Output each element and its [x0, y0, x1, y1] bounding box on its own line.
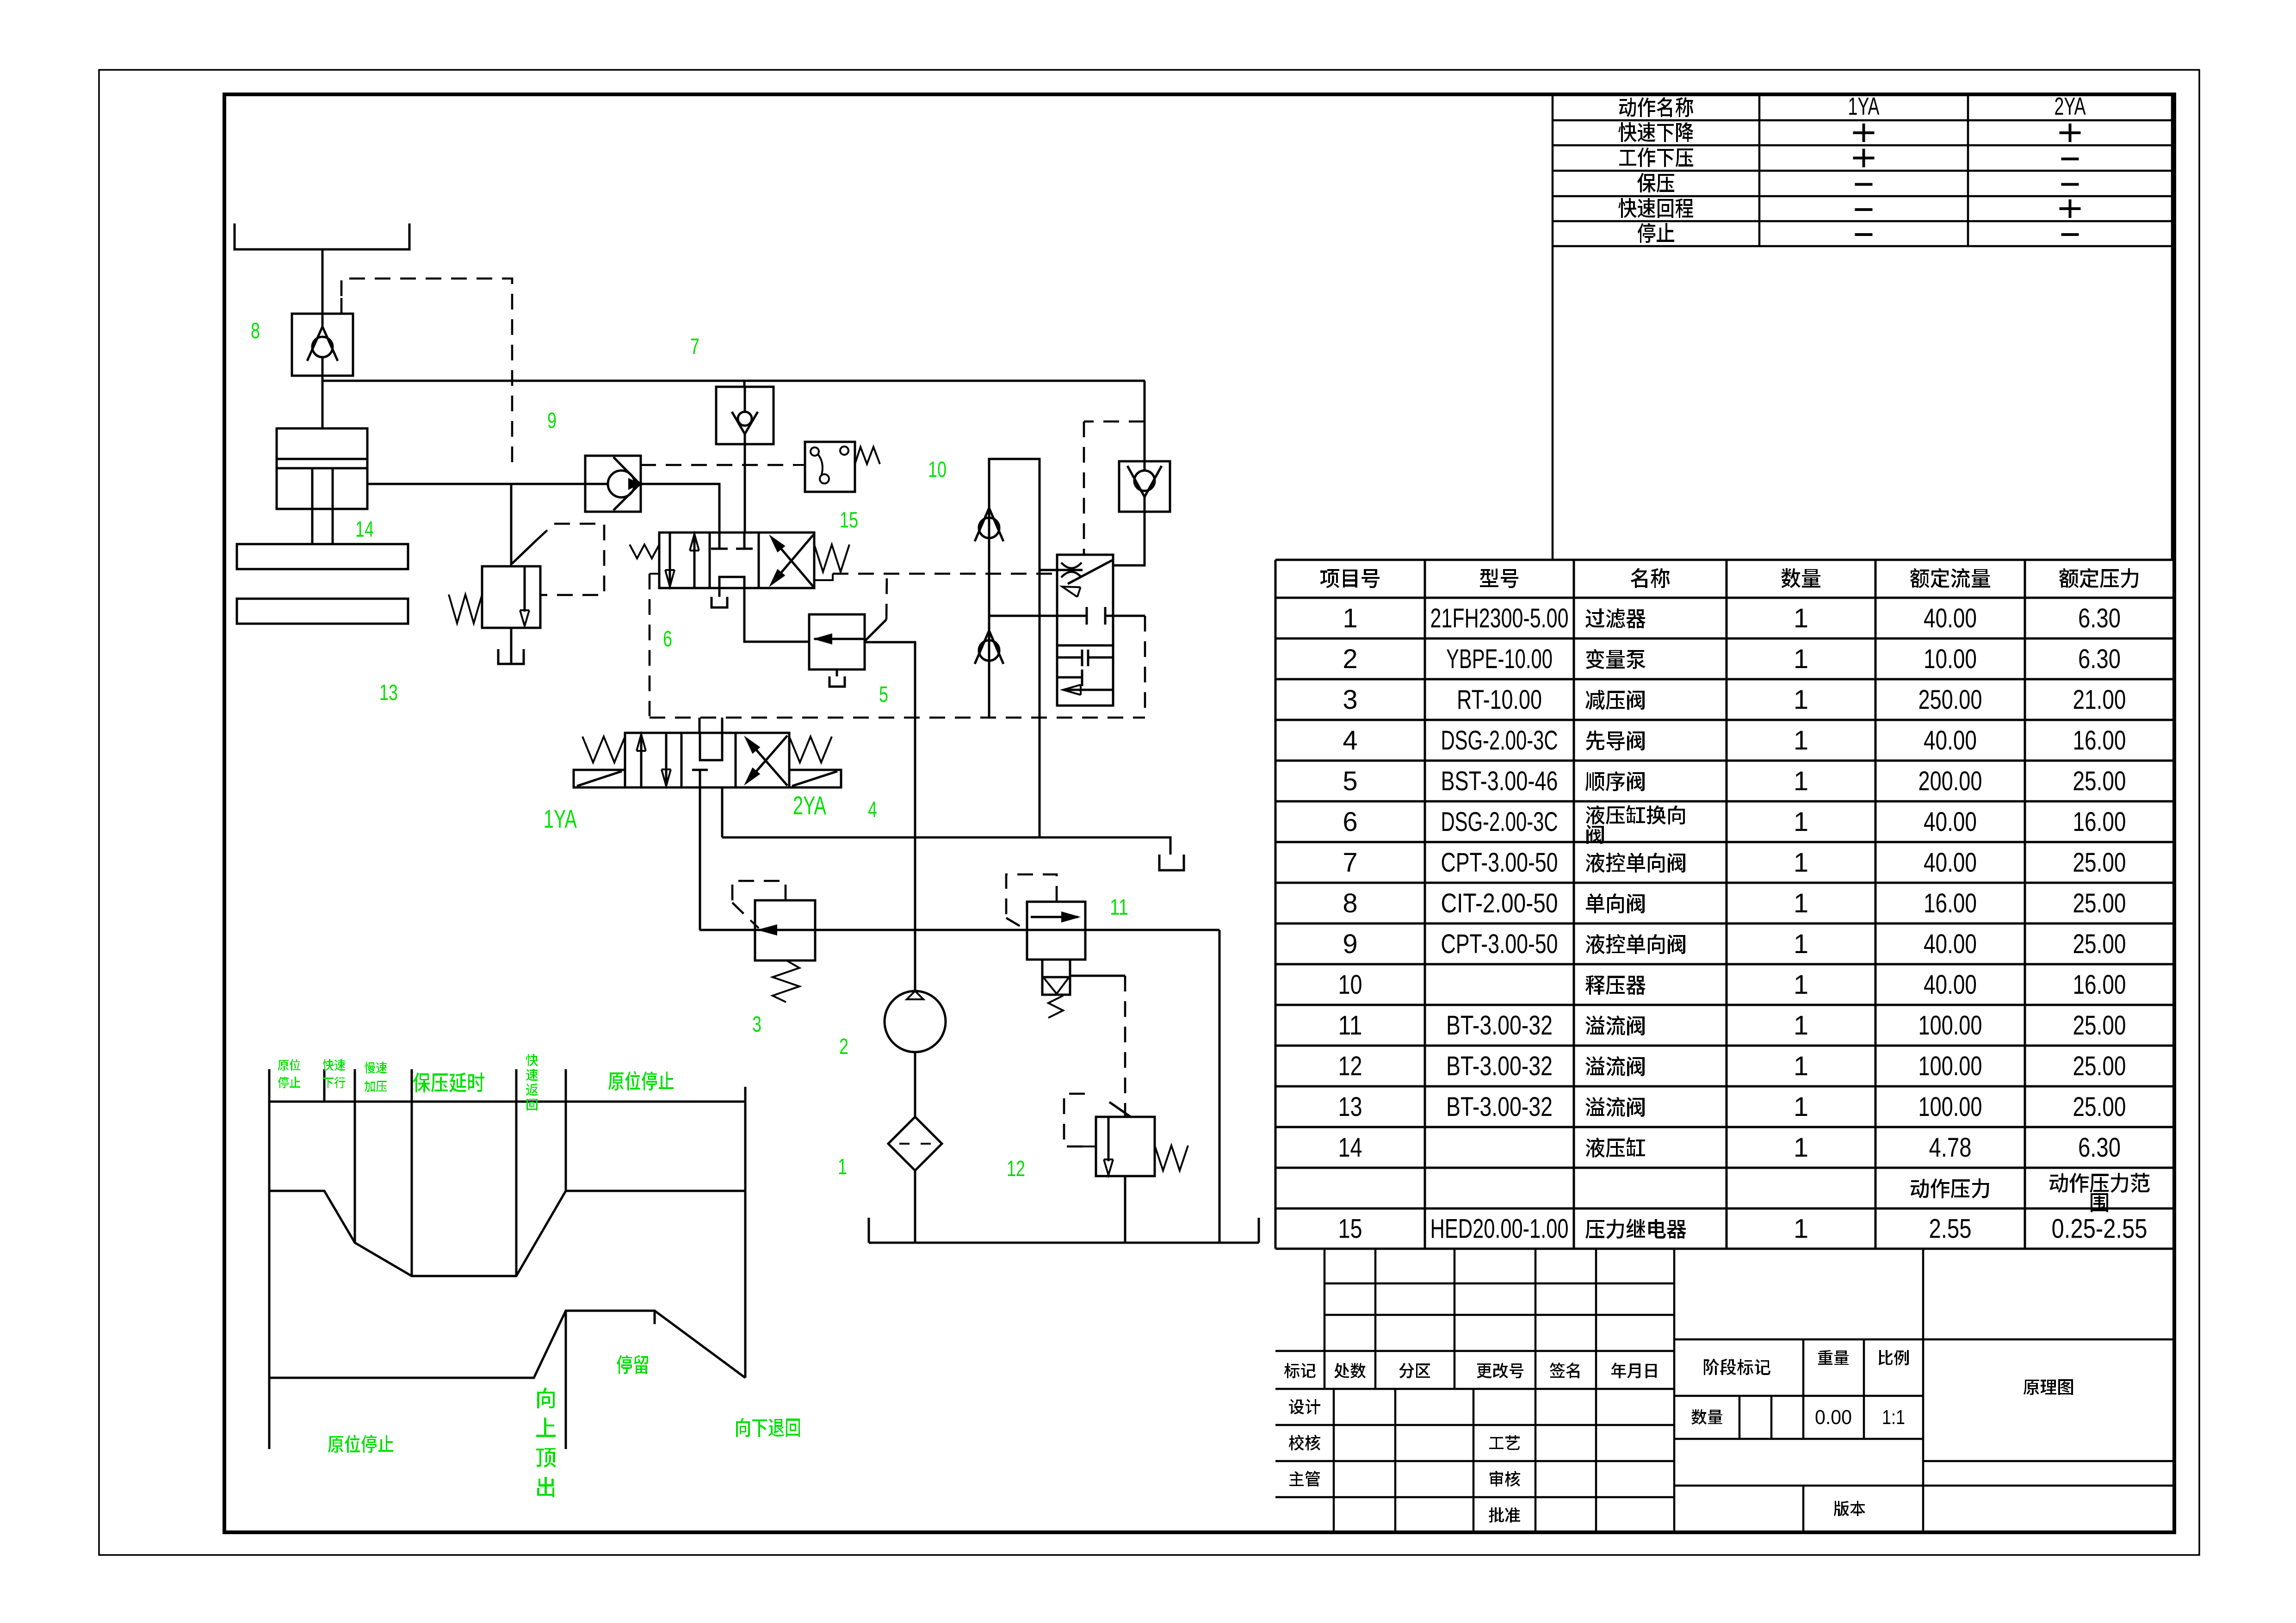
action table row 工作下压: [1619, 148, 1693, 167]
valve 12 outlet to tank: [1124, 1176, 1126, 1243]
svg-text:13: 13: [1338, 1092, 1362, 1122]
release device check line: [989, 459, 1040, 837]
svg-text:RT-10.00: RT-10.00: [1457, 685, 1542, 715]
wire check to release device right port: [1113, 512, 1145, 565]
hydraulic cylinder 14: [277, 428, 367, 509]
reducing valve drain to tank: [510, 628, 513, 664]
svg-text:1: 1: [1343, 603, 1357, 633]
svg-text:25.00: 25.00: [2073, 766, 2126, 796]
svg-text:1YA: 1YA: [544, 804, 577, 833]
sequence valve 5 drain tank: [836, 669, 838, 676]
svg-text:9: 9: [547, 409, 557, 433]
cycle diagram lower curve: [269, 1311, 745, 1378]
svg-text:250.00: 250.00: [1918, 685, 1982, 715]
svg-text:5: 5: [879, 682, 888, 707]
pilot line check 9 to pressure switch 15: [640, 464, 794, 466]
svg-text:2: 2: [1343, 644, 1357, 674]
svg-text:1: 1: [1794, 970, 1808, 1000]
svg-text:4: 4: [1343, 725, 1357, 756]
svg-text:2.55: 2.55: [1929, 1214, 1972, 1244]
pilot valve 4 body: [625, 733, 789, 787]
svg-text:16.00: 16.00: [2073, 970, 2126, 1000]
svg-text:7: 7: [1343, 848, 1357, 878]
valve 12 pilot dashes: [1083, 1146, 1096, 1147]
svg-text:25.00: 25.00: [2073, 1010, 2126, 1041]
cycle diagram top line: [269, 1101, 745, 1103]
svg-text:10.00: 10.00: [1924, 644, 1977, 674]
svg-text:16.00: 16.00: [2073, 807, 2126, 837]
svg-text:40.00: 40.00: [1924, 725, 1977, 756]
svg-text:3: 3: [752, 1012, 761, 1037]
svg-text:40.00: 40.00: [1924, 807, 1977, 837]
sequence valve 5: [809, 614, 865, 669]
release device lower pistons: [1057, 657, 1082, 659]
svg-text:1: 1: [1794, 888, 1808, 918]
title block bottom row vertical: [1802, 1486, 1805, 1532]
title block outline: [1324, 1282, 1674, 1285]
wire valve 5 outlet to pump line: [865, 642, 915, 991]
svg-text:14: 14: [355, 517, 374, 542]
check valve upper of release set: [979, 518, 999, 538]
action table row 停止: [1638, 223, 1674, 243]
svg-text:1: 1: [838, 1155, 847, 1179]
svg-text:16.00: 16.00: [1924, 888, 1977, 918]
svg-text:CPT-3.00-50: CPT-3.00-50: [1441, 929, 1558, 959]
svg-text:8: 8: [251, 319, 260, 343]
svg-text:21.00: 21.00: [2073, 685, 2126, 715]
check valve 7: [743, 381, 746, 387]
action table grid: [1553, 119, 2172, 122]
check valve 8: [292, 314, 353, 376]
valve 4 P port to pressure line: [699, 787, 701, 930]
svg-text:5: 5: [1343, 766, 1357, 796]
svg-text:0.00: 0.00: [1815, 1406, 1852, 1429]
svg-text:100.00: 100.00: [1918, 1051, 1982, 1081]
wire main upper line: [322, 380, 1145, 382]
svg-text:1: 1: [1794, 725, 1808, 756]
wire tank to check valve 8: [322, 249, 324, 314]
title block stage row verticals: [1802, 1339, 1805, 1396]
svg-text:CPT-3.00-50: CPT-3.00-50: [1441, 848, 1558, 878]
svg-text:200.00: 200.00: [1918, 766, 1982, 796]
parts list table grid: [1275, 559, 2174, 561]
valve 11 pilot dashes: [1006, 874, 1057, 918]
svg-text:1:1: 1:1: [1882, 1406, 1905, 1429]
svg-text:21FH2300-5.00: 21FH2300-5.00: [1430, 603, 1569, 633]
solenoid 1YA: [574, 770, 625, 787]
svg-text:13: 13: [379, 681, 398, 705]
svg-text:CIT-2.00-50: CIT-2.00-50: [1441, 888, 1558, 918]
svg-text:40.00: 40.00: [1924, 929, 1977, 959]
cycle diagram ticks: [268, 1069, 271, 1449]
svg-text:6.30: 6.30: [2078, 644, 2121, 674]
svg-text:6.30: 6.30: [2078, 603, 2121, 633]
relief valve 12: [1096, 1117, 1155, 1176]
svg-text:1: 1: [1794, 1010, 1808, 1041]
check valve top right: [1144, 381, 1146, 461]
wire check valve 8 to cylinder: [322, 376, 324, 428]
action table row 快速回程: [1618, 198, 1693, 218]
svg-text:4: 4: [868, 798, 877, 822]
svg-text:40.00: 40.00: [1924, 970, 1977, 1000]
cycle labels: [278, 1059, 300, 1071]
svg-text:6.30: 6.30: [2078, 1133, 2121, 1163]
svg-text:2YA: 2YA: [793, 791, 826, 820]
wire check 7 to valve 6: [744, 444, 746, 533]
svg-text:40.00: 40.00: [1924, 848, 1977, 878]
tank top: [235, 223, 409, 249]
wire pump to filter: [914, 1052, 916, 1117]
directional valve 6: [659, 533, 814, 588]
title block right horizontals: [1674, 1338, 2174, 1341]
pilot line from check valve 8: [340, 296, 343, 314]
svg-text:25.00: 25.00: [2073, 1092, 2126, 1122]
svg-text:BT-3.00-32: BT-3.00-32: [1446, 1092, 1553, 1122]
valve 3 pilot dashes: [732, 881, 786, 903]
svg-text:25.00: 25.00: [2073, 929, 2126, 959]
svg-text:BT-3.00-32: BT-3.00-32: [1446, 1010, 1553, 1041]
parts table row 15: [1911, 1178, 1989, 1198]
pressure switch 15: [805, 442, 855, 492]
pressure release device 10: [1057, 555, 1113, 706]
release device pilot to long dash line: [1113, 615, 1145, 617]
svg-text:25.00: 25.00: [2073, 888, 2126, 918]
svg-text:3: 3: [1343, 685, 1357, 715]
svg-text:1: 1: [1794, 1051, 1808, 1081]
press platen lower 13: [237, 599, 408, 624]
title block left grid verticals upper: [1324, 1249, 1326, 1389]
valve 6 springs: [630, 545, 659, 558]
svg-text:12: 12: [1007, 1157, 1025, 1181]
svg-text:1: 1: [1794, 1092, 1808, 1122]
discharge line to tank: [1219, 930, 1221, 1243]
svg-text:11: 11: [1110, 895, 1128, 920]
svg-text:8: 8: [1343, 888, 1357, 918]
svg-text:12: 12: [1338, 1051, 1362, 1081]
wire junction to reducing valve: [510, 484, 513, 566]
svg-text:1: 1: [1794, 766, 1808, 796]
valve 11 remote port to valve 12: [1070, 975, 1125, 977]
cycle diagram lower verticals: [565, 1311, 567, 1449]
border inner frame: [224, 94, 2174, 1532]
svg-text:7: 7: [690, 335, 699, 359]
svg-text:DSG-2.00-3C: DSG-2.00-3C: [1441, 807, 1558, 837]
svg-text:BT-3.00-32: BT-3.00-32: [1446, 1051, 1553, 1081]
valve 4 top port stubs: [699, 718, 701, 733]
tank return line: [722, 837, 1170, 855]
parts table header row: [1320, 569, 1380, 588]
reducing valve pilot dashes: [536, 524, 554, 541]
svg-text:100.00: 100.00: [1918, 1010, 1982, 1041]
wire filter to tank: [914, 1171, 916, 1243]
svg-text:1YA: 1YA: [1848, 93, 1880, 120]
solenoid 2YA: [789, 770, 841, 787]
title block labels: [1284, 1363, 1316, 1378]
svg-text:6: 6: [1343, 807, 1357, 837]
tank below valve 6: [718, 588, 721, 597]
svg-text:9: 9: [1343, 929, 1357, 959]
wire valve 6 to sequence valve 5: [744, 588, 809, 642]
svg-text:11: 11: [1338, 1010, 1362, 1041]
svg-text:2: 2: [839, 1035, 848, 1059]
pump 2: [885, 991, 946, 1052]
svg-text:15: 15: [1338, 1214, 1362, 1244]
svg-text:1: 1: [1794, 848, 1808, 878]
svg-text:4.78: 4.78: [1929, 1133, 1972, 1163]
svg-text:25.00: 25.00: [2073, 1051, 2126, 1081]
title block divider x4157: [1922, 1249, 1925, 1532]
action table row 动作名称: [1619, 97, 1693, 117]
check valve lower of release set: [979, 640, 999, 661]
svg-text:10: 10: [1338, 970, 1362, 1000]
valve 4 T port to tank line: [721, 787, 724, 837]
svg-text:1: 1: [1794, 929, 1808, 959]
title block divider x3619: [1673, 1249, 1676, 1532]
svg-text:14: 14: [1338, 1133, 1362, 1163]
svg-text:100.00: 100.00: [1918, 1092, 1982, 1122]
svg-text:2YA: 2YA: [2055, 93, 2086, 120]
svg-text:15: 15: [840, 508, 858, 533]
long pilot dashed line: [650, 717, 1145, 719]
pilot dash to release device 10: [1084, 421, 1145, 423]
svg-text:1: 1: [1794, 685, 1808, 715]
action table row 保压: [1637, 173, 1674, 192]
connector vertical right below action table: [2171, 246, 2173, 560]
pressure line P: [699, 929, 1219, 931]
svg-text:1: 1: [1794, 603, 1808, 633]
action table row 快速下降: [1618, 122, 1693, 142]
svg-text:6: 6: [663, 627, 672, 651]
valve 6 pilot right: [814, 574, 833, 580]
svg-text:40.00: 40.00: [1924, 603, 1977, 633]
pilot operated check valve 9: [585, 456, 641, 512]
svg-text:1: 1: [1794, 807, 1808, 837]
release device A port line: [989, 615, 1087, 617]
press platen upper 13: [237, 544, 408, 569]
wire check 9 outlet to valve 6: [640, 484, 719, 533]
title block qty row verticals: [1739, 1396, 1741, 1439]
svg-text:1: 1: [1794, 1214, 1808, 1244]
connector vertical left below action table: [1552, 246, 1554, 560]
svg-text:YBPE-10.00: YBPE-10.00: [1446, 644, 1553, 674]
svg-text:10: 10: [928, 458, 947, 482]
svg-text:16.00: 16.00: [2073, 725, 2126, 756]
relief valve 11: [1027, 902, 1085, 960]
reducing valve (cylinder circuit): [482, 566, 540, 628]
svg-text:HED20.00-1.00: HED20.00-1.00: [1430, 1214, 1569, 1244]
svg-text:DSG-2.00-3C: DSG-2.00-3C: [1441, 725, 1558, 756]
title block left grid verticals lower: [1333, 1389, 1335, 1532]
valve 6 pilot left: [650, 573, 659, 575]
svg-text:1: 1: [1794, 644, 1808, 674]
svg-text:BST-3.00-46: BST-3.00-46: [1441, 766, 1558, 796]
tank bottom reservoir: [869, 1242, 1259, 1244]
svg-text:25.00: 25.00: [2073, 848, 2126, 878]
filter 1: [888, 1117, 942, 1171]
wire cylinder to pilot check 9: [367, 483, 585, 485]
cycle diagram upper curve: [269, 1191, 745, 1276]
svg-text:1: 1: [1794, 1133, 1808, 1163]
svg-text:0.25-2.55: 0.25-2.55: [2052, 1214, 2147, 1244]
reducing valve 3: [755, 900, 815, 960]
